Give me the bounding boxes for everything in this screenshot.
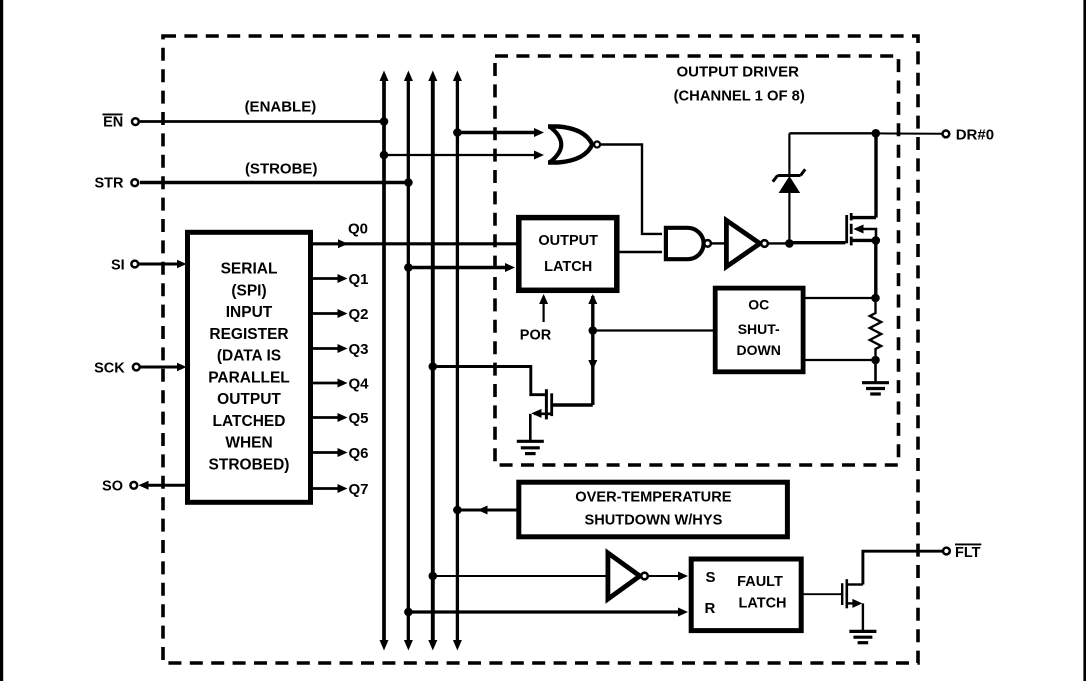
svg-text:Q3: Q3: [349, 341, 369, 358]
wire SCK input: [141, 363, 187, 372]
junction bus1/NOR bottom: [380, 151, 389, 160]
discharge MOSFET: [530, 389, 593, 441]
junction bus3/gate wire: [429, 362, 438, 371]
wire MOSFET source down: [874, 240, 877, 298]
over-temperature shutdown block: [519, 482, 788, 537]
OC shutdown block: [715, 288, 803, 372]
output latch block: [519, 218, 617, 291]
wire over-temp to bus4: [457, 506, 518, 515]
svg-text:OUTPUT: OUTPUT: [217, 391, 281, 408]
svg-text:SI: SI: [111, 257, 125, 273]
pin Q4: [311, 376, 369, 393]
svg-text:STR: STR: [95, 176, 125, 192]
junction EN/bus1: [380, 117, 389, 126]
svg-text:LATCHED: LATCHED: [213, 413, 286, 430]
pin Q1: [311, 271, 369, 288]
terminal FLT: [943, 544, 981, 561]
wire inverter to fault latch S input: [648, 572, 688, 581]
wire OC shutdown to latch line: [593, 329, 717, 331]
terminal SO: [102, 479, 137, 495]
wire resistor to ground: [874, 360, 877, 382]
svg-text:(ENABLE): (ENABLE): [245, 99, 317, 116]
POR input arrow: [539, 294, 548, 322]
bus line 4 (thermal bus): [453, 71, 462, 651]
svg-text:POR: POR: [520, 328, 552, 344]
wire bus2 strobe to output latch: [408, 263, 515, 272]
fault output MOSFET: [842, 579, 863, 631]
bus line 2 (STR bus): [404, 71, 413, 651]
wire OC sense top: [801, 297, 876, 299]
svg-text:WHEN: WHEN: [225, 435, 272, 452]
svg-text:LATCH: LATCH: [544, 259, 592, 275]
junction bus3/S wire: [429, 572, 438, 581]
junction bus4/NOR top: [453, 128, 462, 137]
bus line 3 (OC fault bus): [428, 71, 437, 651]
svg-text:SCK: SCK: [94, 360, 125, 376]
wire MOSFET drain up: [874, 133, 877, 217]
junction resistor top: [871, 294, 880, 303]
svg-text:(DATA IS: (DATA IS: [217, 348, 281, 365]
wire output latch to NAND bottom input: [618, 251, 662, 253]
wire OC sense bottom: [801, 359, 876, 361]
junction resistor bottom: [871, 356, 880, 365]
svg-text:Q6: Q6: [349, 445, 369, 462]
wire NAND to inverter: [711, 242, 725, 244]
sense resistor: [870, 298, 881, 360]
svg-text:SHUT-: SHUT-: [738, 321, 780, 337]
pin Q2: [311, 306, 369, 323]
svg-text:(SPI): (SPI): [231, 282, 266, 299]
terminal SI: [111, 257, 138, 273]
zener diode: [773, 133, 805, 243]
svg-text:PARALLEL: PARALLEL: [208, 369, 290, 386]
inverter buffer: [726, 220, 767, 266]
wire SI input: [139, 260, 187, 269]
junction drain rail: [872, 129, 881, 138]
svg-text:OC: OC: [748, 297, 769, 313]
svg-text:SO: SO: [102, 479, 123, 495]
ground G1: [517, 441, 544, 453]
wire bus2 to fault latch R input: [408, 608, 688, 617]
NAND gate: [666, 228, 711, 259]
bus line 1 (EN bus): [380, 71, 389, 651]
svg-text:INPUT: INPUT: [226, 304, 273, 321]
wire STR to bus 2: [140, 181, 408, 185]
svg-text:DR#0: DR#0: [956, 126, 994, 143]
svg-text:FLT: FLT: [955, 545, 981, 561]
terminal EN: [103, 114, 139, 130]
junction gate node: [785, 239, 794, 248]
svg-text:STROBED): STROBED): [209, 456, 290, 473]
power MOSFET output driver: [847, 213, 876, 245]
terminal SCK: [94, 360, 140, 376]
junction bus2/R wire: [404, 608, 413, 617]
chip boundary dashed box: [163, 36, 918, 663]
ground G2: [862, 383, 889, 394]
svg-text:S: S: [706, 569, 716, 586]
svg-text:Q5: Q5: [349, 410, 369, 427]
wire FLT FET drain to terminal: [863, 551, 943, 584]
wire gate node to power MOSFET gate: [789, 241, 845, 244]
NOR gate: [548, 127, 600, 163]
svg-text:EN: EN: [103, 115, 123, 131]
junction STR/bus2: [404, 178, 413, 187]
pin Q3: [311, 341, 369, 358]
svg-text:R: R: [705, 600, 716, 617]
wire bus1 to NOR gate bottom input: [384, 151, 544, 160]
svg-text:(STROBE): (STROBE): [245, 161, 318, 178]
ground G3: [849, 631, 876, 642]
wire latch reset vertical (to discharge FET): [588, 294, 597, 405]
terminal STR: [95, 176, 139, 192]
svg-text:Q0: Q0: [348, 221, 368, 238]
wire NOR output to NAND top input: [601, 145, 662, 234]
junction OC line: [589, 326, 598, 335]
svg-text:(CHANNEL 1 OF 8): (CHANNEL 1 OF 8): [674, 89, 805, 105]
fault latch block: [691, 559, 801, 631]
wire bus3 to fault inverter: [433, 575, 606, 577]
wire fault latch to FLT FET gate: [803, 593, 841, 595]
svg-text:Q4: Q4: [349, 376, 370, 393]
svg-text:OUTPUT: OUTPUT: [538, 233, 598, 249]
wire SO output: [139, 481, 188, 490]
wire EN to bus 1: [140, 120, 384, 123]
svg-text:SHUTDOWN W/HYS: SHUTDOWN W/HYS: [584, 512, 722, 528]
junction bus4/over-temp: [453, 506, 462, 515]
svg-text:SERIAL: SERIAL: [221, 261, 278, 278]
junction bus2/strobe: [404, 263, 413, 272]
svg-text:REGISTER: REGISTER: [209, 326, 288, 343]
svg-text:Q2: Q2: [349, 306, 369, 323]
pin Q7: [311, 481, 369, 498]
svg-text:DOWN: DOWN: [737, 342, 781, 358]
serial input register block: [188, 232, 311, 502]
wire drain rail to DR#0 terminal: [876, 132, 942, 134]
svg-text:OUTPUT DRIVER: OUTPUT DRIVER: [676, 64, 799, 81]
wire Q0 register to output latch: [311, 239, 518, 248]
svg-text:OVER-TEMPERATURE: OVER-TEMPERATURE: [575, 490, 731, 506]
wire bus4 to NOR gate top input: [457, 128, 544, 137]
svg-text:Q7: Q7: [349, 481, 369, 498]
svg-text:LATCH: LATCH: [738, 596, 786, 612]
terminal DR#0: [943, 126, 995, 143]
junction MOSFET source: [872, 236, 881, 245]
fault inverter: [608, 553, 648, 599]
pin Q6: [311, 445, 369, 462]
svg-text:FAULT: FAULT: [737, 574, 783, 590]
wire bus3 to discharge FET gate: [433, 367, 545, 395]
wire drain rail top: [789, 132, 875, 134]
svg-text:Q1: Q1: [349, 271, 369, 288]
wire inverter to gate node: [768, 242, 789, 244]
pin Q5: [311, 410, 369, 427]
output driver boundary dashed box: [495, 56, 899, 465]
